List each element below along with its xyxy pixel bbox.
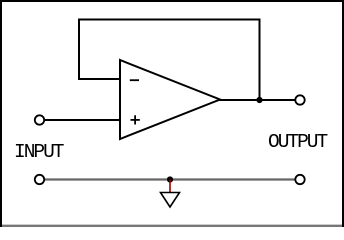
ground rail right terminal (295, 175, 304, 184)
wire: op-amp output to output terminal (219, 99, 295, 101)
ground (161, 193, 180, 208)
node: ground junction on rail (167, 176, 173, 182)
svg-text:OUTPUT: OUTPUT (268, 131, 328, 153)
input terminal (35, 115, 44, 124)
wire: inverting input segment (78, 78, 121, 80)
wire: input terminal to non-inverting input (44, 119, 121, 121)
ground rail left terminal (35, 175, 44, 184)
output terminal (295, 95, 304, 104)
op-amp U1 (120, 60, 220, 139)
wire: ground rail (44, 178, 295, 180)
wire: stub from rail junction down to ground symbol (169, 180, 171, 193)
svg-text:INPUT: INPUT (14, 141, 64, 163)
op-amp U1 inverting input (-) marker (130, 79, 139, 81)
op-amp U1 non-inverting input (+) marker (131, 115, 140, 124)
wire: feedback loop from output node up and over to inverting input (79, 20, 260, 101)
node: output/feedback junction (256, 97, 262, 103)
